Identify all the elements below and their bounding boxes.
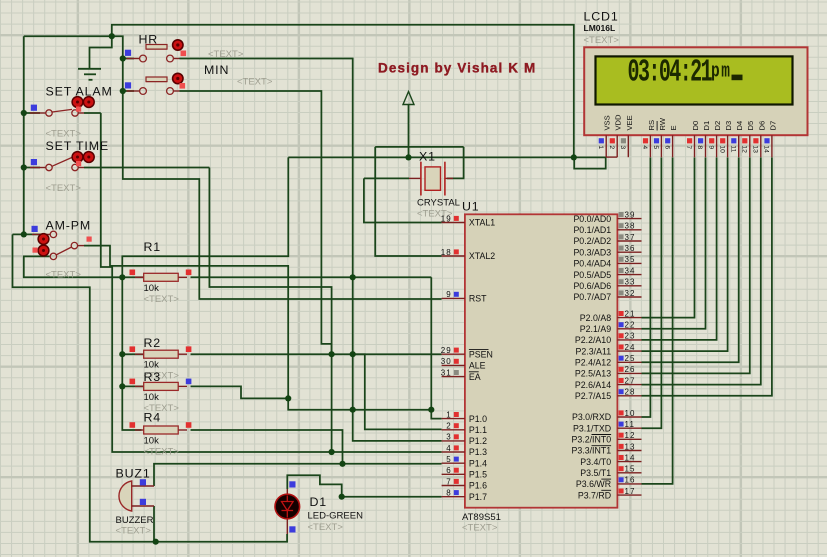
- svg-text:21: 21: [625, 309, 636, 318]
- svg-text:P1.5: P1.5: [469, 470, 487, 480]
- svg-text:P3.2/INT0: P3.2/INT0: [571, 435, 611, 445]
- svg-text:P3.0/RXD: P3.0/RXD: [572, 412, 611, 422]
- svg-text:30: 30: [441, 357, 452, 366]
- svg-text:33: 33: [625, 278, 636, 287]
- svg-text:5: 5: [652, 145, 659, 149]
- svg-text:LED-GREEN: LED-GREEN: [308, 511, 364, 522]
- svg-text:3: 3: [619, 145, 626, 149]
- svg-text:ALE: ALE: [469, 361, 486, 371]
- svg-text:<TEXT>: <TEXT>: [584, 35, 620, 46]
- svg-text:pm: pm: [711, 60, 732, 83]
- svg-text:36: 36: [625, 244, 636, 253]
- svg-text:P1.1: P1.1: [469, 425, 487, 435]
- svg-text:D2: D2: [713, 121, 722, 131]
- svg-text:XTAL1: XTAL1: [469, 218, 495, 228]
- svg-text:P0.2/AD2: P0.2/AD2: [573, 236, 611, 246]
- svg-text:26: 26: [625, 365, 636, 374]
- svg-text:10: 10: [625, 409, 636, 418]
- svg-text:2: 2: [608, 145, 615, 149]
- svg-text:11: 11: [625, 420, 636, 429]
- svg-text:27: 27: [625, 376, 636, 385]
- svg-text:P3.7/RD: P3.7/RD: [578, 490, 611, 500]
- svg-text:5: 5: [446, 455, 452, 464]
- svg-text:HR: HR: [139, 33, 159, 47]
- svg-text:15: 15: [625, 465, 636, 474]
- svg-text:D1: D1: [310, 495, 328, 509]
- svg-text:P2.2/A10: P2.2/A10: [575, 335, 611, 345]
- svg-text:22: 22: [625, 321, 636, 330]
- svg-text:VEE: VEE: [625, 115, 634, 130]
- svg-text:VSS: VSS: [603, 115, 612, 130]
- svg-text:P0.1/AD1: P0.1/AD1: [573, 225, 611, 235]
- svg-text:R4: R4: [144, 411, 162, 425]
- svg-text:14: 14: [625, 453, 636, 462]
- svg-text:P2.1/A9: P2.1/A9: [580, 324, 611, 334]
- svg-text:12: 12: [741, 145, 748, 153]
- svg-text:RS: RS: [647, 120, 656, 131]
- svg-text:SET ALAM: SET ALAM: [46, 85, 113, 99]
- svg-text:P0.0/AD0: P0.0/AD0: [573, 214, 611, 224]
- svg-text:P1.3: P1.3: [469, 447, 487, 457]
- svg-text:VDD: VDD: [614, 114, 623, 131]
- svg-text:25: 25: [625, 354, 636, 363]
- svg-text:9: 9: [707, 145, 714, 149]
- svg-text:D1: D1: [702, 121, 711, 131]
- svg-text:LCD1: LCD1: [584, 10, 619, 24]
- svg-text:10k: 10k: [144, 392, 160, 403]
- svg-text:P3.1/TXD: P3.1/TXD: [573, 423, 611, 433]
- svg-text:17: 17: [625, 487, 636, 496]
- svg-text:P3.3/INT1: P3.3/INT1: [571, 446, 611, 456]
- svg-text:4: 4: [446, 444, 452, 453]
- svg-text:R2: R2: [144, 336, 162, 350]
- svg-text:34: 34: [625, 266, 636, 275]
- svg-text:2: 2: [446, 422, 452, 431]
- svg-text:P2.0/A8: P2.0/A8: [580, 313, 611, 323]
- svg-text:XTAL2: XTAL2: [469, 251, 495, 261]
- svg-text:29: 29: [441, 346, 452, 355]
- svg-text:24: 24: [625, 343, 636, 352]
- svg-text:10k: 10k: [144, 283, 160, 294]
- svg-text:D3: D3: [724, 121, 733, 131]
- svg-text:03:04:21: 03:04:21: [628, 54, 713, 90]
- svg-text:<TEXT>: <TEXT>: [116, 526, 152, 537]
- svg-text:P2.4/A12: P2.4/A12: [575, 358, 611, 368]
- svg-text:38: 38: [625, 222, 636, 231]
- svg-text:8: 8: [696, 145, 703, 149]
- svg-text:D5: D5: [746, 121, 755, 131]
- svg-text:7: 7: [685, 145, 692, 149]
- svg-text:MIN: MIN: [204, 63, 229, 77]
- svg-text:<TEXT>: <TEXT>: [144, 447, 180, 458]
- svg-text:10k: 10k: [144, 436, 160, 447]
- svg-text:8: 8: [446, 489, 452, 498]
- svg-text:<TEXT>: <TEXT>: [144, 294, 180, 305]
- svg-text:7: 7: [446, 477, 452, 486]
- svg-text:11: 11: [729, 145, 736, 152]
- svg-text:1: 1: [446, 410, 452, 419]
- svg-text:D6: D6: [757, 121, 766, 131]
- svg-text:14: 14: [763, 145, 770, 153]
- svg-text:<TEXT>: <TEXT>: [308, 522, 344, 533]
- svg-text:10: 10: [718, 145, 725, 153]
- svg-text:1: 1: [597, 145, 604, 149]
- svg-text:X1: X1: [419, 150, 436, 164]
- svg-text:P3.5/T1: P3.5/T1: [580, 468, 611, 478]
- svg-text:P0.7/AD7: P0.7/AD7: [573, 292, 611, 302]
- svg-text:P2.7/A15: P2.7/A15: [575, 391, 611, 401]
- svg-text:P3.4/T0: P3.4/T0: [580, 457, 611, 467]
- svg-text:EA: EA: [469, 372, 481, 382]
- svg-text:P2.5/A13: P2.5/A13: [575, 369, 611, 379]
- svg-text:LM016L: LM016L: [584, 23, 616, 33]
- svg-text:P0.5/AD5: P0.5/AD5: [573, 270, 611, 280]
- svg-text:<TEXT>: <TEXT>: [46, 183, 82, 194]
- svg-text:23: 23: [625, 332, 636, 341]
- svg-text:R3: R3: [144, 370, 162, 384]
- svg-text:18: 18: [441, 248, 452, 257]
- svg-text:32: 32: [625, 289, 636, 298]
- svg-text:D0: D0: [691, 121, 700, 131]
- svg-text:<TEXT>: <TEXT>: [237, 77, 273, 88]
- svg-text:CRYSTAL: CRYSTAL: [417, 198, 460, 209]
- svg-text:RW: RW: [658, 117, 667, 130]
- svg-text:SET TIME: SET TIME: [46, 139, 110, 153]
- svg-text:RST: RST: [469, 294, 487, 304]
- svg-text:D7: D7: [768, 121, 777, 131]
- svg-text:13: 13: [752, 145, 759, 153]
- svg-text:<TEXT>: <TEXT>: [46, 129, 82, 140]
- svg-text:13: 13: [625, 442, 636, 451]
- svg-text:P3.6/WR: P3.6/WR: [576, 479, 611, 489]
- svg-text:<TEXT>: <TEXT>: [208, 49, 244, 60]
- svg-text:31: 31: [441, 368, 452, 377]
- svg-text:P0.4/AD4: P0.4/AD4: [573, 259, 611, 269]
- svg-text:3: 3: [446, 433, 452, 442]
- svg-text:D4: D4: [735, 121, 744, 131]
- svg-text:BUZZER: BUZZER: [116, 515, 154, 526]
- svg-text:P1.2: P1.2: [469, 436, 487, 446]
- svg-text:<TEXT>: <TEXT>: [462, 523, 498, 534]
- svg-text:<TEXT>: <TEXT>: [46, 270, 82, 281]
- svg-text:P0.6/AD6: P0.6/AD6: [573, 281, 611, 291]
- svg-text:28: 28: [625, 388, 636, 397]
- svg-text:BUZ1: BUZ1: [116, 467, 151, 481]
- svg-text:35: 35: [625, 255, 636, 264]
- svg-text:6: 6: [446, 466, 452, 475]
- svg-text:P2.6/A14: P2.6/A14: [575, 380, 611, 390]
- svg-text:E: E: [669, 125, 678, 130]
- svg-text:U1: U1: [462, 200, 480, 214]
- svg-text:Design by Vishal K M: Design by Vishal K M: [378, 60, 536, 75]
- svg-text:P1.0: P1.0: [469, 414, 487, 424]
- svg-text:P1.4: P1.4: [469, 458, 487, 468]
- svg-text:P0.3/AD3: P0.3/AD3: [573, 247, 611, 257]
- svg-text:R1: R1: [144, 240, 162, 254]
- svg-text:12: 12: [625, 431, 636, 440]
- svg-text:19: 19: [441, 214, 452, 223]
- svg-text:P2.3/A11: P2.3/A11: [576, 346, 612, 356]
- svg-text:AT89S51: AT89S51: [462, 512, 501, 523]
- svg-text:16: 16: [625, 476, 636, 485]
- svg-text:37: 37: [625, 233, 636, 242]
- svg-text:39: 39: [625, 210, 636, 219]
- svg-text:6: 6: [663, 145, 670, 149]
- svg-text:PSEN: PSEN: [469, 349, 493, 359]
- svg-text:9: 9: [446, 290, 452, 299]
- svg-text:4: 4: [641, 145, 648, 149]
- svg-text:AM-PM: AM-PM: [46, 219, 92, 233]
- svg-text:P1.6: P1.6: [469, 481, 487, 491]
- svg-text:P1.7: P1.7: [469, 492, 487, 502]
